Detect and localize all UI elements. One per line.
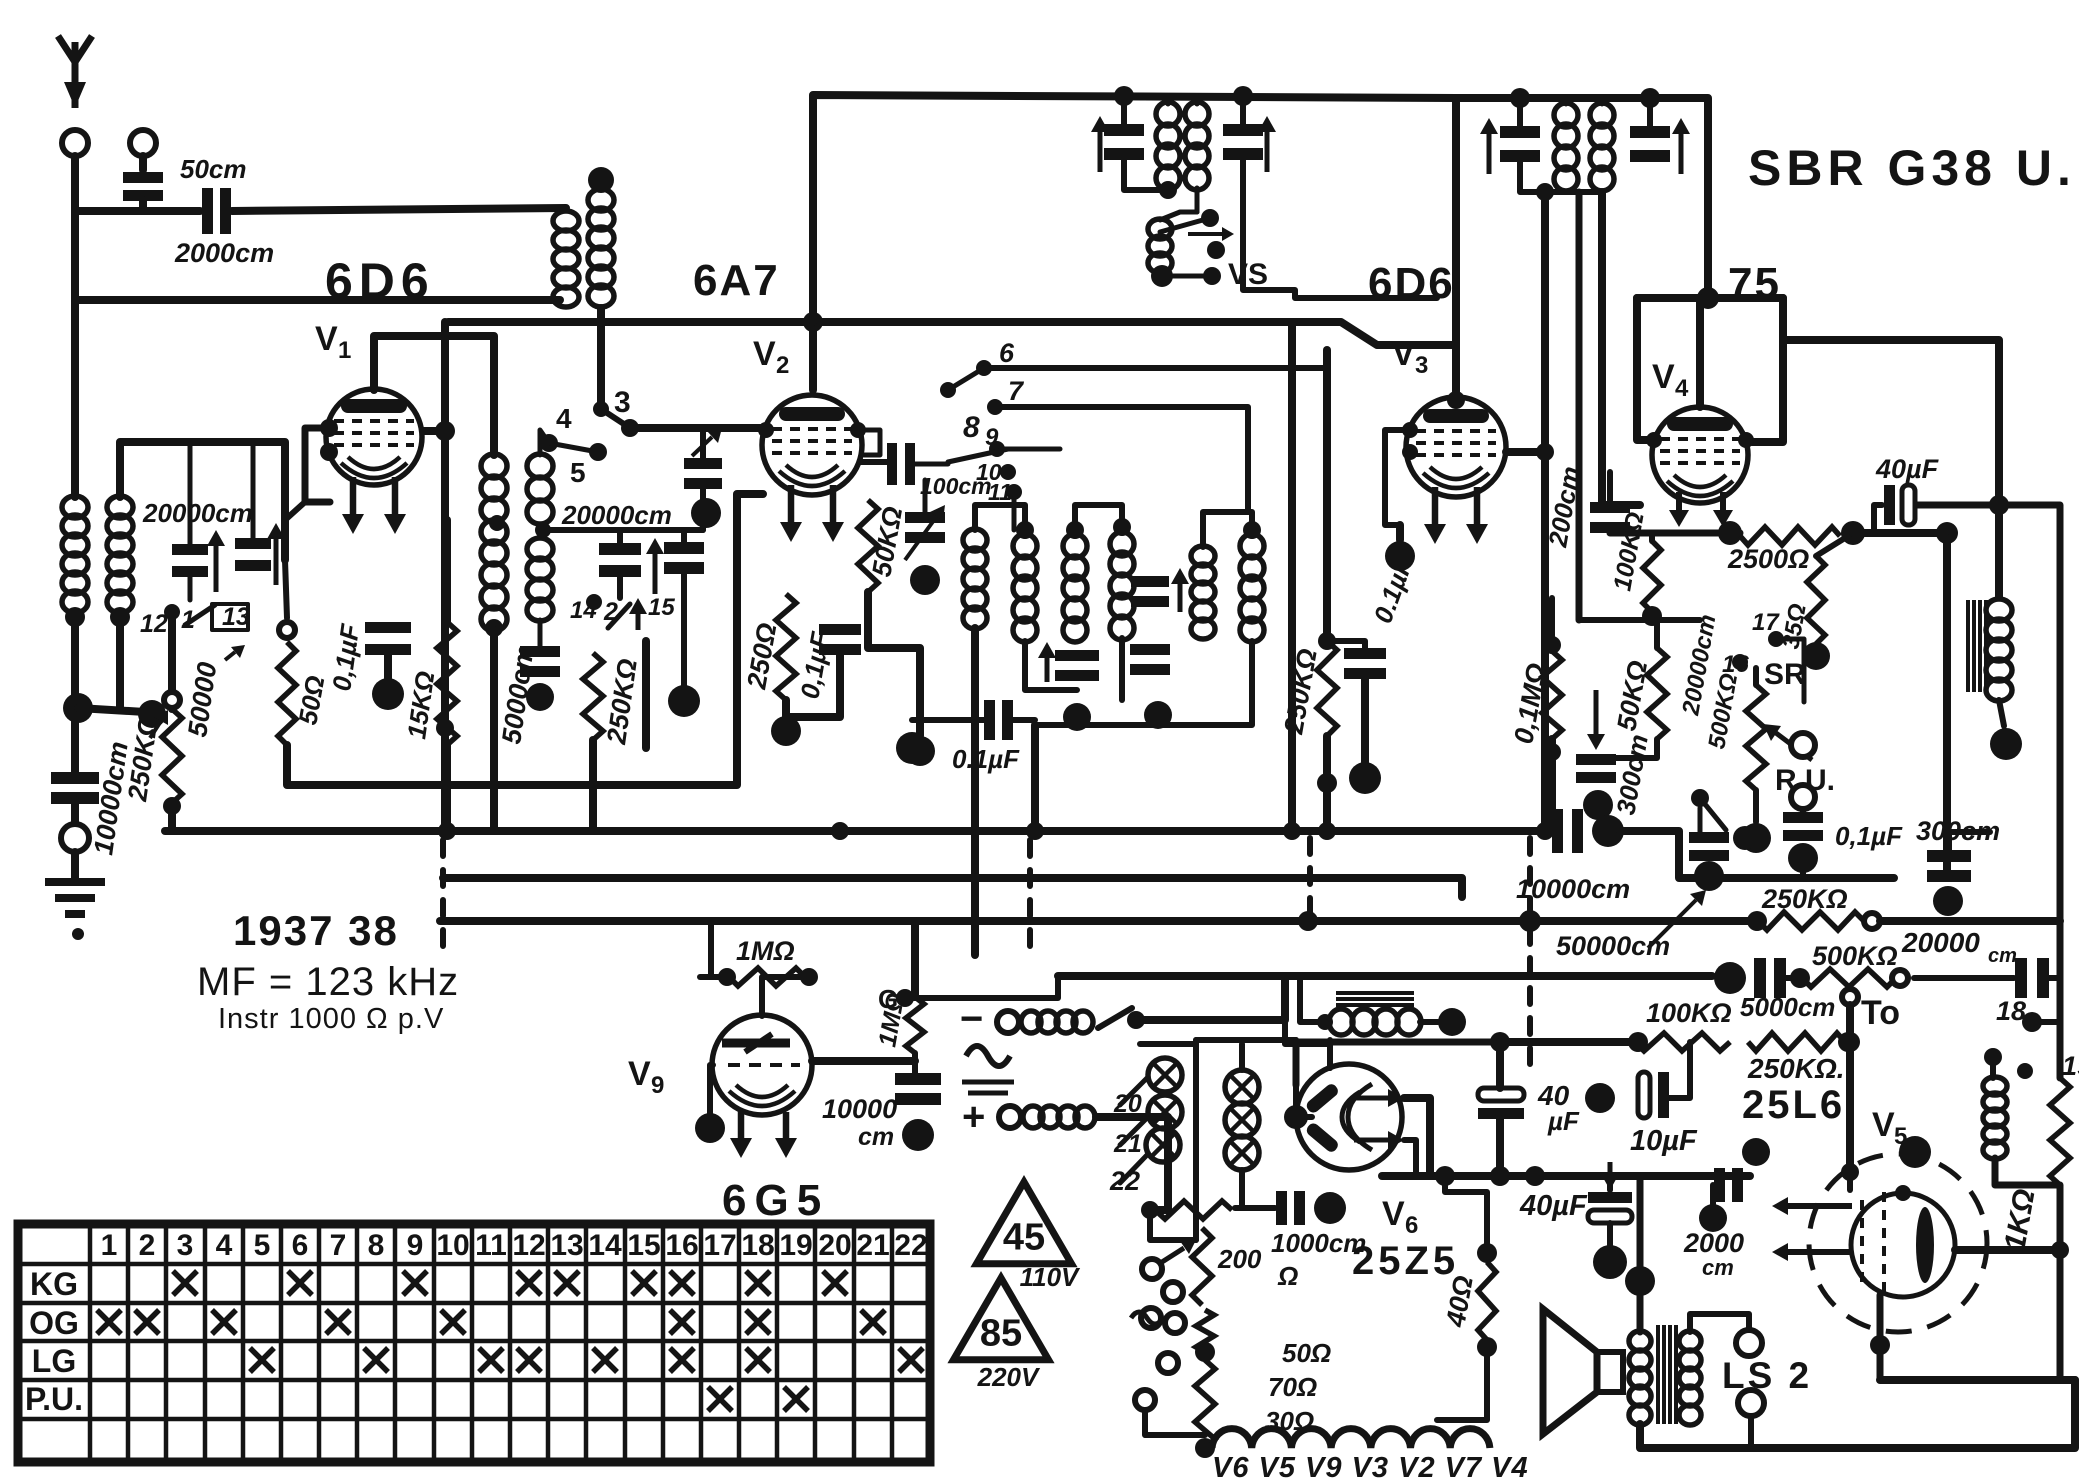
V4 cathode arrow left xyxy=(1669,492,1689,527)
busA junction 1327 xyxy=(1318,822,1336,840)
svg-text:15: 15 xyxy=(648,594,675,621)
V6 left junction xyxy=(1284,1105,1308,1129)
resistor 50ohm xyxy=(278,642,296,745)
tube V2 anode arrow right xyxy=(822,485,844,542)
V4 grid right xyxy=(1738,432,1754,448)
V4 grid left xyxy=(1646,432,1662,448)
svg-text:5: 5 xyxy=(254,1229,271,1262)
choke core lines xyxy=(1968,600,1986,692)
junction 1K btm xyxy=(2051,1241,2069,1259)
junction L4 bottom xyxy=(110,607,130,627)
tube V1 anode arrow right xyxy=(384,477,406,534)
arrow 5000 xyxy=(225,645,245,660)
label contact 3 xyxy=(614,386,631,419)
wire 15K top xyxy=(443,520,451,622)
label 300cm right xyxy=(1916,816,2000,846)
tube V3 anode arrow right xyxy=(1466,487,1488,544)
triangle 45 voltage xyxy=(1020,1262,1081,1292)
label 20000cm osc xyxy=(561,500,672,530)
IF1 coil2 top xyxy=(1195,96,1200,104)
wire pot bottom xyxy=(1753,790,1759,822)
V9 plate wire xyxy=(812,1057,915,1065)
svg-text:7: 7 xyxy=(330,1229,347,1262)
svg-text:12: 12 xyxy=(140,610,168,638)
VS coil xyxy=(1148,219,1172,273)
svg-text:0,1µF: 0,1µF xyxy=(1835,821,1903,851)
V4 anode arrow right xyxy=(1713,492,1733,527)
VS arm xyxy=(1160,218,1210,232)
coil tone 18 xyxy=(1983,1077,2007,1159)
label 20000cm left xyxy=(142,498,253,528)
svg-text:250KΩ: 250KΩ xyxy=(601,657,643,747)
wire bank bus xyxy=(1035,641,1252,725)
heater chain xyxy=(1212,1429,1490,1448)
IF1 bottom junction xyxy=(1159,181,1177,199)
svg-text:8: 8 xyxy=(963,411,980,444)
blob T3 xyxy=(691,498,721,528)
capacitor 20000cm psu xyxy=(2015,958,2049,998)
resistor 50K V2 xyxy=(858,500,878,592)
wire bank riser c7 xyxy=(1245,430,1251,512)
junction 100K left xyxy=(1628,1032,1648,1052)
contact 7 dot xyxy=(987,399,1003,415)
wire V6 cath b xyxy=(1404,1140,1416,1176)
resistor 15K xyxy=(437,622,457,745)
wire 0.1osc left xyxy=(912,717,988,723)
label contact 4 xyxy=(556,403,572,434)
contact 3 riser dot xyxy=(593,401,609,417)
wire 13 to 50ohm xyxy=(285,560,287,618)
right edge drop xyxy=(2057,921,2064,1078)
wire 0.1V3 link xyxy=(1327,641,1365,653)
svg-text:0.1µF: 0.1µF xyxy=(952,744,1020,774)
wire 0.1M bottom xyxy=(1548,739,1556,830)
wire B+ riser xyxy=(1288,322,1296,830)
wire tone right xyxy=(1880,917,2060,925)
label 6G5 xyxy=(722,1176,829,1225)
wire 1M left xyxy=(700,974,727,980)
wire plate supply xyxy=(1853,529,1947,537)
svg-text:2: 2 xyxy=(139,1229,156,1262)
blob ant divider xyxy=(138,700,166,728)
trimmer arrow ant 1 xyxy=(207,530,225,592)
resistor 250K osc xyxy=(583,653,603,740)
svg-text:5: 5 xyxy=(570,457,586,488)
wire bank top a xyxy=(975,505,1025,536)
svg-text:1MΩ: 1MΩ xyxy=(736,936,795,966)
IF2 cap left stub xyxy=(1517,98,1523,128)
resistor 250K tone xyxy=(1758,912,1864,930)
IF2 coil1 top xyxy=(1564,98,1569,104)
blob 300cm det xyxy=(1583,790,1613,820)
bus C (chassis) xyxy=(440,917,1756,925)
terminal dot top of L2 xyxy=(588,167,614,193)
tube V4 xyxy=(1652,407,1748,503)
label plus xyxy=(962,1095,985,1139)
svg-text:3: 3 xyxy=(177,1229,194,1262)
coil L2 antenna secondary xyxy=(588,189,614,307)
blob 50K bottom xyxy=(905,736,935,766)
busA junction 1545 xyxy=(1536,822,1554,840)
resistor 1K xyxy=(2050,1078,2070,1185)
lamp 1b xyxy=(1148,1095,1182,1129)
label G xyxy=(878,984,898,1014)
junction dropper left xyxy=(1141,1201,1159,1219)
wire 1000cm xyxy=(1235,1205,1275,1211)
V6 arrow top xyxy=(1354,1089,1404,1107)
label 20000cm det xyxy=(1677,612,1721,718)
label 40uF no1 b xyxy=(1547,1106,1580,1136)
V5 arrow a xyxy=(1772,1197,1852,1215)
svg-text:1: 1 xyxy=(338,337,351,364)
terminal LS b xyxy=(1738,1390,1764,1416)
capacitor 10000cm series xyxy=(1552,809,1583,853)
wire cap to coil L1 xyxy=(232,208,566,211)
lamp 2c xyxy=(1225,1136,1259,1170)
tube V6 25Z5 xyxy=(1296,1064,1402,1170)
table row label P.U. xyxy=(25,1381,83,1417)
capacitor 0.1uF V1 xyxy=(365,622,411,655)
label contact 11 xyxy=(988,479,1012,505)
svg-text:cm: cm xyxy=(858,1123,894,1151)
wire tap f xyxy=(1145,1412,1205,1435)
svg-text:50cm: 50cm xyxy=(180,154,247,184)
resistor 1M h xyxy=(729,968,805,986)
wire pot top xyxy=(1753,668,1759,685)
antenna terminal A1 xyxy=(62,130,88,156)
svg-text:7: 7 xyxy=(1008,376,1025,406)
resistor 40ohm xyxy=(1478,1262,1496,1340)
label contact 1 xyxy=(181,606,195,634)
tap terminal a xyxy=(1142,1259,1162,1279)
junction IF1 left hang xyxy=(1114,86,1134,106)
coil L5 tap xyxy=(489,515,505,531)
wire antenna return xyxy=(75,296,560,304)
IF2 trimmer cap left xyxy=(1500,126,1540,162)
junction To xyxy=(1840,1032,1860,1052)
blob grid circuit xyxy=(1699,1204,1727,1232)
wire 200cm up xyxy=(1607,472,1613,506)
switch arm 4-5 xyxy=(549,443,598,452)
wire 40ohm top xyxy=(1445,1176,1487,1253)
wire V6 cath a xyxy=(1404,1098,1430,1176)
triangle 85 value xyxy=(980,1313,1022,1355)
capacitor 10000cm xyxy=(51,772,99,804)
svg-text:0,1µF: 0,1µF xyxy=(794,629,835,701)
junction 250K V3 top xyxy=(1318,632,1336,650)
contact 14 dot xyxy=(586,594,602,610)
wire To drop xyxy=(1846,1005,1854,1172)
label 20000cm psu xyxy=(1901,927,1980,958)
resistor 250K V3grid xyxy=(1317,641,1337,736)
osc coil dot 4 xyxy=(1243,521,1261,539)
V4 top cap junction xyxy=(1697,287,1719,309)
label 15KOhm xyxy=(401,669,440,741)
wire A2 cap to line xyxy=(75,200,143,211)
wire V5 plate right xyxy=(1955,1246,2060,1254)
blob 35ohm bottom xyxy=(1802,642,1830,670)
tap squiggle xyxy=(1131,1312,1163,1324)
svg-text:13: 13 xyxy=(550,1229,583,1262)
tube V5 inner xyxy=(1851,1192,1955,1298)
V9 grid resistor feed xyxy=(711,921,727,977)
antenna xyxy=(58,36,92,108)
svg-text:G: G xyxy=(878,984,898,1014)
blob 40uF2 xyxy=(1593,1245,1627,1279)
triangle 85 voltage xyxy=(977,1362,1041,1392)
wire 50K det bottom xyxy=(1596,739,1657,758)
junction 2500 left xyxy=(1718,521,1742,545)
choke2 coil xyxy=(1329,1009,1421,1035)
osc coil dot 3 xyxy=(1113,518,1131,536)
svg-text:20000cm: 20000cm xyxy=(142,498,253,528)
svg-text:V: V xyxy=(1652,358,1675,396)
IF2 mid drop xyxy=(1576,192,1583,620)
ganged link dash 1530 xyxy=(1527,838,1533,1070)
electrolytic 10uF xyxy=(1638,1072,1669,1118)
label V1 sub xyxy=(338,337,351,364)
wire 100K V4 top xyxy=(1649,533,1655,541)
junction 40uF1 top xyxy=(1490,1032,1510,1052)
blob 1000cm xyxy=(1314,1192,1346,1224)
blob 10000cm V9 xyxy=(902,1119,934,1151)
wire choke bottom xyxy=(1999,700,2004,726)
wire trimmer T3 hang xyxy=(700,428,706,462)
antenna terminal A2 xyxy=(130,130,156,156)
label 40uF no2 xyxy=(1519,1190,1588,1222)
svg-text:16: 16 xyxy=(1722,651,1749,678)
label 1MOhm v xyxy=(873,991,910,1049)
blob V3 grid xyxy=(1385,541,1415,571)
junction 250K right xyxy=(1838,1032,1858,1052)
wire V5 bottom bus xyxy=(1880,1376,2075,1384)
junction heater start xyxy=(1195,1438,1215,1458)
contact 250K top xyxy=(164,692,180,708)
label 25L6 xyxy=(1742,1083,1845,1127)
arrow 40uF2 xyxy=(1601,1162,1619,1190)
wire choke2 right xyxy=(1420,1019,1438,1025)
label 2000cm xyxy=(174,238,274,268)
tap terminal d xyxy=(1165,1313,1185,1333)
label heater tubes xyxy=(1212,1452,1529,1484)
label contact 6 xyxy=(999,338,1015,368)
wire sw to 250K xyxy=(168,612,176,709)
label V5 xyxy=(1872,1106,1895,1144)
label 40uF V4 xyxy=(1875,454,1940,484)
wire sec top xyxy=(1690,1314,1749,1332)
svg-text:SBR G38 U.: SBR G38 U. xyxy=(1748,140,2076,196)
coil L6b xyxy=(527,538,553,621)
IF2 primary coil xyxy=(1554,103,1578,191)
svg-text:21: 21 xyxy=(856,1229,889,1262)
svg-text:18: 18 xyxy=(741,1229,774,1262)
capacitor bank low xyxy=(1055,650,1099,681)
coil osc bank 5 xyxy=(1191,546,1215,639)
svg-text:µF: µF xyxy=(1547,1106,1580,1136)
label 2500ohm xyxy=(1727,544,1809,574)
tube V1 xyxy=(326,389,422,485)
label VS xyxy=(1228,258,1268,291)
contact 4 dot xyxy=(540,434,558,452)
label 6D6 (V3) xyxy=(1368,259,1455,308)
wire 250Kosc bottom xyxy=(589,740,597,830)
electrolytic 40uF xyxy=(1884,485,1915,525)
contact 5 dot xyxy=(589,443,607,461)
lamp col2 wire xyxy=(1239,1044,1245,1070)
blob under 5000cm cap xyxy=(526,683,554,711)
lamp 1c xyxy=(1146,1128,1180,1162)
trimmer cap V2 anode xyxy=(905,512,945,543)
contact 18 dot xyxy=(2022,1012,2042,1032)
wire bank top b xyxy=(1075,505,1122,536)
svg-text:V: V xyxy=(753,335,776,373)
coil L6 top xyxy=(540,430,549,455)
svg-text:MF = 123 kHz: MF = 123 kHz xyxy=(197,960,459,1004)
junction 250K V3 btm xyxy=(1317,773,1337,793)
trimmer arrow V2 anode xyxy=(905,505,945,560)
switch arm 10 xyxy=(948,449,1008,462)
label contact 5 xyxy=(570,457,586,488)
wire trimmer1 to switch xyxy=(188,574,193,600)
svg-text:50000cm: 50000cm xyxy=(1556,931,1670,961)
svg-text:V: V xyxy=(315,320,338,358)
label 50000cm xyxy=(1556,931,1670,961)
V1 top cap wire xyxy=(374,336,494,455)
svg-text:3: 3 xyxy=(614,386,631,419)
junction 0.1M btm xyxy=(1543,743,1561,761)
wire det sw xyxy=(1698,808,1703,837)
resistor 250K psu xyxy=(1748,1033,1845,1051)
blob choke2 right xyxy=(1438,1008,1466,1036)
coil L3 grid xyxy=(62,496,88,613)
contact 6 dot xyxy=(976,360,992,376)
blob OT top xyxy=(1625,1266,1655,1296)
svg-text:40µF: 40µF xyxy=(1519,1190,1588,1222)
label 50ohm xyxy=(292,673,330,727)
wire RU xyxy=(1800,809,1806,812)
label 100KOhm psu xyxy=(1646,998,1732,1028)
wire 50K down xyxy=(868,592,920,736)
svg-text:1937 38: 1937 38 xyxy=(233,907,399,954)
label 40uF no1 a xyxy=(1537,1080,1570,1111)
svg-text:cm: cm xyxy=(1988,945,2017,967)
wire 250K to busA xyxy=(168,803,176,831)
wire contact11 xyxy=(1012,492,1017,530)
svg-text:300cm: 300cm xyxy=(1610,732,1654,817)
junction HT a xyxy=(1435,1166,1455,1186)
resistor 250K ant xyxy=(162,709,182,803)
V2 grid right dot xyxy=(850,422,866,438)
V3 grid down xyxy=(1396,525,1404,540)
bus A (AVC) xyxy=(165,827,1552,835)
svg-text:250KΩ: 250KΩ xyxy=(1278,646,1323,737)
svg-text:50000: 50000 xyxy=(182,660,222,739)
blob 10uF xyxy=(1585,1083,1615,1113)
wire minus to V6 anodes xyxy=(1285,1020,1330,1068)
IF1 cap left stub xyxy=(1121,96,1127,126)
wire T3 down xyxy=(700,486,706,530)
contact 10 dot xyxy=(1000,464,1016,480)
V9 arrow left xyxy=(730,1112,752,1158)
wire 35ohm link xyxy=(1816,533,1853,556)
blob 0.1uF V3 xyxy=(1349,762,1381,794)
capacitor 0.1uF osc xyxy=(984,700,1013,740)
mains switch blade xyxy=(1098,1008,1132,1028)
VS return wire xyxy=(1243,158,1437,298)
svg-text:4: 4 xyxy=(556,403,572,434)
capacitor padder xyxy=(599,543,641,577)
resistor 50K det xyxy=(1647,648,1667,739)
wire L2 bottom to contact 3 xyxy=(597,308,605,409)
IF2 arrow right xyxy=(1672,118,1690,174)
IF2 bottom wire xyxy=(1520,160,1602,192)
svg-text:2500Ω: 2500Ω xyxy=(1727,544,1809,574)
resistor 200ohm xyxy=(1192,1228,1212,1305)
wire top bus xyxy=(448,322,1452,345)
VS contact dot b xyxy=(1207,241,1225,259)
mains switch dot xyxy=(1127,1011,1145,1029)
svg-text:1: 1 xyxy=(101,1229,118,1262)
IF1 trimmer cap left xyxy=(1104,124,1144,160)
svg-text:11: 11 xyxy=(475,1229,507,1262)
label 6A7 (V2) xyxy=(693,256,780,305)
svg-text:20000cm: 20000cm xyxy=(561,500,672,530)
tap blade 21 xyxy=(1120,1118,1147,1145)
tap terminal c xyxy=(1141,1308,1161,1328)
table row label KG xyxy=(30,1266,78,1302)
blob 0.1osc xyxy=(896,732,928,764)
svg-text:V6 V5 V9 V3 V2 V7 V4: V6 V5 V9 V3 V2 V7 V4 xyxy=(1212,1452,1529,1479)
tap blade 20 xyxy=(1120,1078,1147,1105)
junction 2500 right xyxy=(1841,521,1865,545)
wire 40uF2 btm xyxy=(1607,1223,1613,1245)
wire bank riser 6 xyxy=(1323,350,1331,641)
capacitor bank low2 xyxy=(1130,644,1170,675)
label ohm psu xyxy=(1277,1261,1298,1291)
svg-text:22: 22 xyxy=(894,1229,927,1262)
svg-text:10000: 10000 xyxy=(822,1094,897,1124)
label 300cm det xyxy=(1610,732,1654,817)
label 100KOhm V4 xyxy=(1608,510,1649,593)
IF1 coil1 top xyxy=(1166,96,1171,104)
capacitor 50cm xyxy=(123,172,163,201)
label V4 sub xyxy=(1675,375,1689,402)
svg-text:250KΩ.: 250KΩ. xyxy=(1747,1053,1845,1084)
svg-text:15KΩ: 15KΩ xyxy=(401,669,440,741)
resistor 50ohm xyxy=(1196,1310,1214,1352)
pot wiper arrow xyxy=(1763,724,1812,760)
title SBR G38 U. xyxy=(1748,140,2076,196)
label 250ohm V2 xyxy=(741,621,782,692)
lamp 2a xyxy=(1225,1070,1259,1104)
svg-text:LG: LG xyxy=(32,1343,76,1379)
tap terminal f xyxy=(1135,1390,1155,1410)
wire trimmer bar xyxy=(642,641,650,748)
label 250KOhm V3 xyxy=(1278,646,1323,737)
junction V3 plate xyxy=(1536,443,1554,461)
blob 5000cm left xyxy=(1714,962,1746,994)
switch arm 2 xyxy=(608,604,630,628)
blob trimmer V2 xyxy=(910,565,940,595)
V2 right grid wire xyxy=(858,430,880,455)
wire L3 bottom down xyxy=(71,612,79,775)
coil L5 xyxy=(481,454,507,631)
resistor lamp dropper xyxy=(1155,1201,1232,1219)
label 0.1uF osc xyxy=(952,744,1020,774)
junction V5 cath xyxy=(1870,1335,1890,1355)
blob bank a xyxy=(1063,703,1091,731)
electrolytic 40uF no1 xyxy=(1478,1088,1524,1119)
